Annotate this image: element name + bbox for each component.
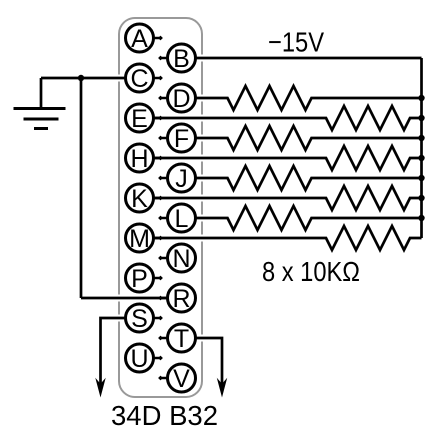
svg-text:U: U: [130, 345, 148, 373]
pin J: [158, 164, 195, 193]
junction row E on bus: [418, 115, 424, 121]
svg-text:E: E: [131, 105, 148, 133]
ground: [14, 109, 66, 129]
pin M: [126, 224, 163, 253]
resistor row D: [195, 86, 422, 110]
ground stem wire: [40, 78, 43, 109]
pin N: [158, 244, 195, 273]
svg-text:S: S: [131, 305, 148, 333]
wire ground bus vertical to R row: [80, 78, 83, 298]
resistor row K: [154, 186, 422, 210]
svg-text:D: D: [172, 85, 190, 113]
-15V net label: [268, 27, 324, 58]
svg-text:V: V: [173, 365, 190, 393]
junction row K on bus: [418, 195, 424, 201]
svg-text:B: B: [173, 45, 190, 73]
connector designation 34D B32: [111, 400, 218, 431]
pin C: [126, 64, 163, 93]
pin F: [158, 124, 195, 153]
junction row F on bus: [418, 135, 424, 141]
resistor row J: [195, 166, 422, 190]
connector outline J1: [119, 18, 202, 397]
svg-text:A: A: [131, 25, 148, 53]
junction row L on bus: [418, 215, 424, 221]
svg-text:C: C: [130, 65, 148, 93]
pin K: [126, 184, 163, 213]
value label 8 x 10KOhm: [262, 256, 360, 287]
wire pin B to -15V bus: [195, 55, 422, 62]
svg-text:F: F: [174, 125, 189, 153]
svg-text:N: N: [172, 245, 190, 273]
pin R: [158, 284, 195, 313]
resistor row H: [154, 146, 422, 170]
resistor row F: [195, 126, 422, 150]
junction row D on bus: [418, 95, 424, 101]
svg-text:M: M: [129, 225, 150, 253]
pin U: [126, 344, 163, 373]
svg-text:H: H: [130, 145, 148, 173]
svg-text:T: T: [174, 325, 189, 353]
pin E: [126, 104, 163, 133]
pin B: [158, 44, 195, 73]
junction row H on bus: [418, 155, 424, 161]
resistor row M: [154, 226, 422, 250]
arrow off-sheet from T: [217, 378, 227, 398]
pin S: [126, 304, 163, 333]
wire to pin R: [81, 295, 168, 302]
svg-text:L: L: [175, 205, 189, 233]
svg-text:K: K: [131, 185, 148, 213]
junction on C ground wire: [78, 75, 84, 81]
pin H: [126, 144, 163, 173]
svg-text:8 x 10KΩ: 8 x 10KΩ: [262, 256, 360, 287]
junction row J on bus: [418, 175, 424, 181]
pin P: [126, 264, 163, 293]
svg-text:R: R: [172, 285, 190, 313]
resistor row L: [195, 206, 422, 230]
svg-text:J: J: [175, 165, 188, 193]
wire pin T to down arrow: [195, 338, 222, 385]
arrow off-sheet from S: [95, 378, 105, 398]
wire -15V bus vertical: [420, 58, 423, 238]
svg-text:P: P: [131, 265, 148, 293]
pin V: [158, 364, 195, 393]
wire C to ground bus: [41, 75, 126, 82]
svg-text:−15V: −15V: [268, 27, 324, 58]
resistor row E: [154, 106, 422, 130]
wire pin S to down arrow: [101, 318, 127, 385]
pin A: [126, 24, 163, 53]
pin D: [158, 84, 195, 113]
pin L: [158, 204, 195, 233]
svg-text:34D B32: 34D B32: [111, 400, 218, 431]
pin T: [158, 324, 195, 353]
